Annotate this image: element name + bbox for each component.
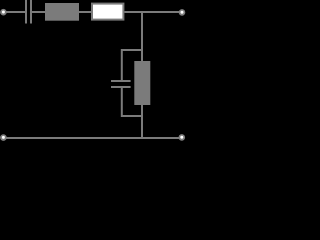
resistor R1 (outlined box) [92, 4, 123, 20]
wire: C2 bottom lead [121, 88, 123, 115]
port P4 terminal bottom-right [179, 134, 186, 141]
wire: R1 to port P2 [124, 11, 179, 13]
capacitor C2 bottom plate [111, 86, 131, 88]
resistor R2 (filled box, vertical) [134, 61, 150, 105]
wire: C2 top lead [121, 51, 123, 80]
wire: bottom rail [6, 137, 180, 139]
port P2 terminal top-right [179, 9, 186, 16]
wire: vertical branch from top rail to R2 [141, 13, 143, 61]
inductor L1 (filled box) [45, 3, 79, 21]
wire: port P1 to capacitor C1 [6, 11, 26, 13]
port P1 terminal top-left [0, 9, 7, 16]
wire: top jog to capacitor C2 [121, 49, 143, 51]
wire: bottom jog from C2 to vertical branch [121, 115, 143, 117]
port P3 terminal bottom-left [0, 134, 7, 141]
wire: L1 to R1 [79, 11, 91, 13]
capacitor C2 top plate [111, 80, 131, 82]
capacitor C1 left plate [25, 0, 27, 24]
wire: C1 to L1 [32, 11, 45, 13]
capacitor C1 right plate [30, 0, 32, 24]
wire: R2 bottom to bottom rail [141, 105, 143, 138]
